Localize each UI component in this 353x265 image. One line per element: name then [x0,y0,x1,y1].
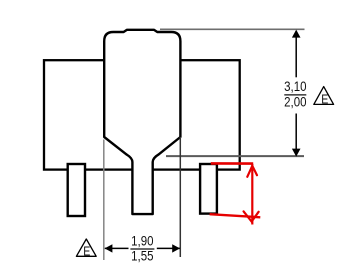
fraction bar bottom [130,248,154,250]
horizontal dimension arrow left [105,244,113,252]
vertical dimension line upper segment [295,31,297,77]
svg-text:E: E [321,91,328,106]
red markup bottom line [210,214,261,217]
red markup arrowhead up [247,166,257,177]
red markup vertical line [251,164,253,225]
svg-text:2,00: 2,00 [284,93,306,109]
package body outline [44,60,240,169]
svg-text:1,90: 1,90 [131,232,153,248]
vertical dimension arrow down [292,149,301,157]
right lead [200,164,217,214]
extension line right vertical (dark) [179,137,181,257]
horizontal dimension line right segment [157,247,180,249]
horizontal dimension line left segment [105,247,129,249]
fraction bar right [284,94,306,96]
extension line top (gray horizontal) [160,28,305,30]
mounting tab / heatsink with center lead [104,30,180,214]
svg-text:E: E [83,243,90,258]
svg-text:1,55: 1,55 [131,247,153,263]
red markup arrowhead down [244,211,259,221]
datum triangle E right [314,87,334,105]
red markup top line [211,162,253,165]
svg-text:3,10: 3,10 [284,78,306,94]
left lead [68,164,85,216]
extension line bottom-right (gray horizontal) [166,155,304,157]
datum triangle E bottom [76,239,96,256]
extension line left vertical (gray) [103,140,105,261]
horizontal dimension arrow right [172,244,180,252]
vertical dimension arrow up [292,30,301,38]
vertical dimension line lower segment [295,114,297,156]
